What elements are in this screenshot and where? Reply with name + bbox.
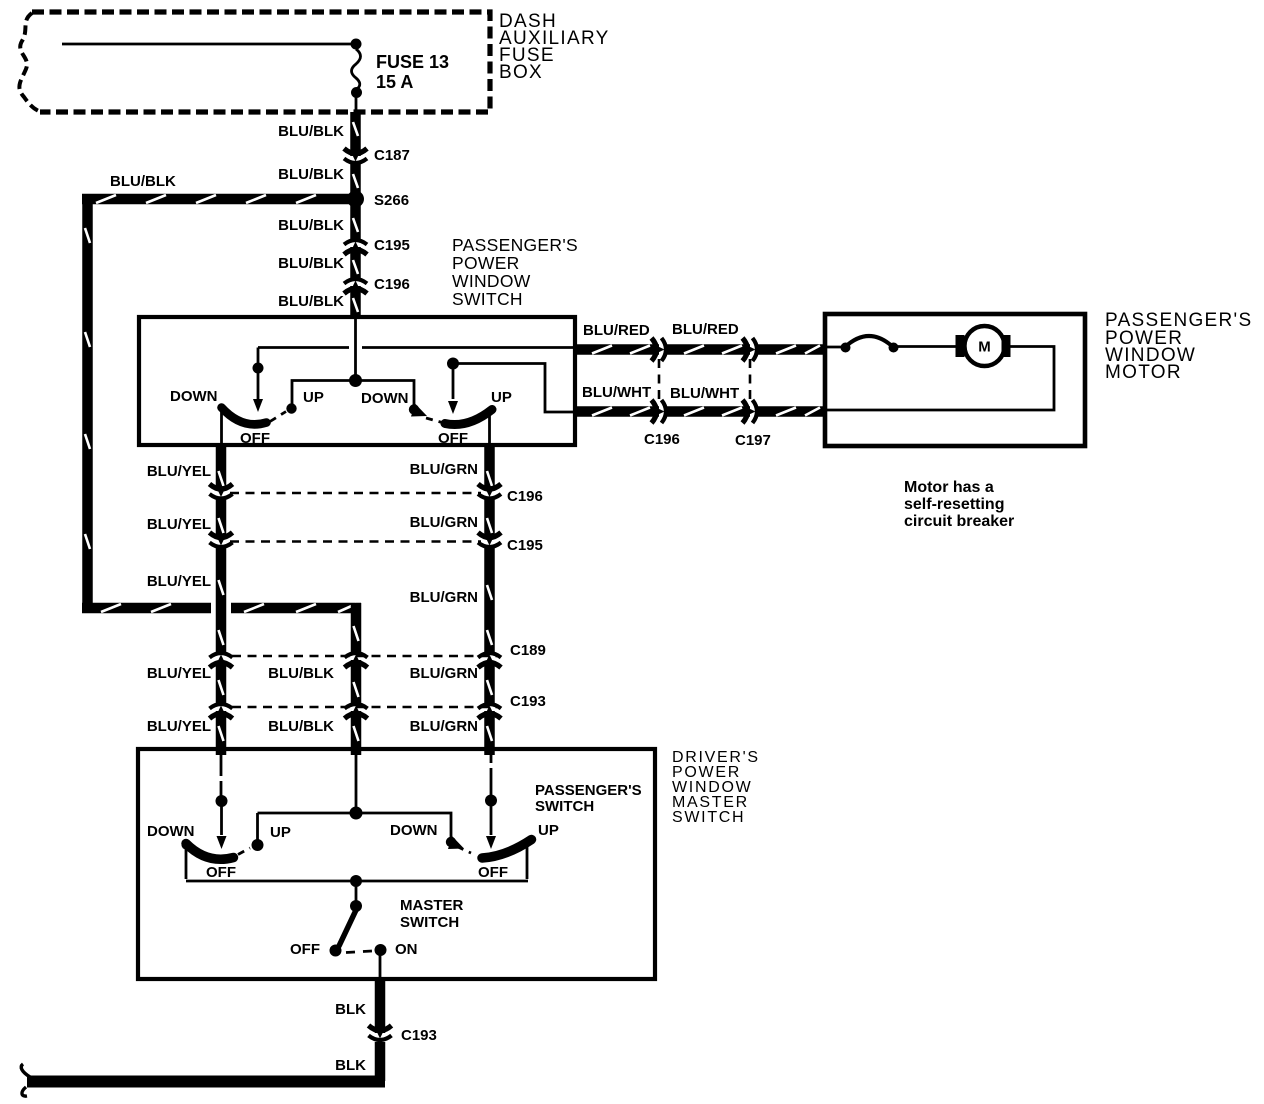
svg-text:BLU/WHT: BLU/WHT <box>670 385 739 402</box>
svg-text:DOWN: DOWN <box>390 822 438 839</box>
svg-text:BLU/BLK: BLU/BLK <box>278 166 344 183</box>
wire right wiper + bus B <box>452 364 455 399</box>
driver's power window master switch box <box>138 749 655 979</box>
connector C196 (BLU/GRN) <box>478 484 501 499</box>
connector C189 (BLU/GRN) <box>478 653 501 668</box>
svg-text:C196: C196 <box>644 431 680 448</box>
rocker right (passenger) <box>445 410 492 425</box>
node DOWN contact (master right) <box>446 837 456 847</box>
svg-text:OFF: OFF <box>206 864 236 881</box>
svg-text:C195: C195 <box>507 537 543 554</box>
wire UP to bus <box>256 813 259 841</box>
svg-text:M: M <box>978 339 991 356</box>
wire BLU/BLK branch (S266 to left run) <box>82 195 349 203</box>
motor M1 <box>956 326 1011 366</box>
svg-text:C196: C196 <box>507 488 543 505</box>
wire feed inside switch <box>354 319 357 378</box>
node fuse top <box>351 39 362 50</box>
wire motor return loop <box>827 347 1054 411</box>
connector C193 (BLU/YEL) <box>210 704 233 719</box>
svg-text:S266: S266 <box>374 192 409 209</box>
wire bus A (to BLU/RED) <box>258 346 575 349</box>
node OFF bus center <box>350 875 362 887</box>
connector C196 (BLU/WHT) <box>652 400 667 423</box>
svg-text:DOWN: DOWN <box>361 390 409 407</box>
svg-text:PASSENGER'S: PASSENGER'S <box>535 782 642 799</box>
dashed link C193 <box>232 706 500 709</box>
svg-text:SWITCH: SWITCH <box>400 914 459 931</box>
svg-text:UP: UP <box>270 824 291 841</box>
svg-text:BLU/BLK: BLU/BLK <box>268 718 334 735</box>
svg-text:BLU/YEL: BLU/YEL <box>147 665 211 682</box>
wire rocker right to OFF bus <box>526 845 529 879</box>
wire motor feed <box>827 346 846 349</box>
svg-text:OFF: OFF <box>438 430 468 447</box>
dashed wiper contact right <box>426 418 444 423</box>
svg-text:BLU/GRN: BLU/GRN <box>410 514 478 531</box>
splice S266 <box>347 191 364 208</box>
wire bus (UP-DOWN link master) <box>258 813 452 837</box>
wire rocker to box bottom (BLU/GRN tap) <box>488 412 491 445</box>
svg-text:DOWN: DOWN <box>147 823 195 840</box>
rocker left (master) <box>186 844 234 860</box>
master switch blade <box>339 909 357 946</box>
svg-text:BLU/BLK: BLU/BLK <box>278 293 344 310</box>
wire left feed inside master <box>220 751 223 796</box>
svg-text:ON: ON <box>395 941 418 958</box>
wire OFF bus (master) <box>186 880 528 883</box>
dashed wiper contact left <box>270 412 286 422</box>
svg-text:C193: C193 <box>510 693 546 710</box>
dashed master contact <box>346 951 372 953</box>
wire breaker to motor <box>893 345 962 348</box>
fuse F13 element <box>352 49 361 89</box>
svg-text:UP: UP <box>303 389 324 406</box>
wire BLU/WHT (switch to motor) <box>575 408 825 416</box>
wire BLK (below master box) <box>375 979 386 1033</box>
wire BLU/BLK feed (fuse box to switch) <box>353 112 358 319</box>
fuse box feed wire <box>62 43 352 46</box>
svg-text:MOTOR: MOTOR <box>1105 362 1182 383</box>
circuit breaker (self-resetting) <box>841 343 851 353</box>
svg-text:C197: C197 <box>735 432 771 449</box>
svg-text:BLK: BLK <box>335 1057 366 1074</box>
node UP contact (master left) <box>252 839 264 851</box>
wire rocker left to OFF bus <box>185 847 188 879</box>
passenger's power window switch box <box>139 317 575 445</box>
node middle junction <box>350 807 363 820</box>
svg-text:self-resetting: self-resetting <box>904 496 1004 513</box>
wire ON to box bottom <box>379 953 382 979</box>
svg-text:UP: UP <box>538 822 559 839</box>
connector C196 (BLU/RED) <box>652 338 667 361</box>
master switch wire down <box>355 881 358 903</box>
svg-text:BLU/RED: BLU/RED <box>583 322 650 339</box>
svg-text:WINDOW: WINDOW <box>452 271 531 291</box>
dashed wiper contact (master left) <box>238 848 250 855</box>
connector C197 (BLU/RED) <box>743 338 758 361</box>
wire BLU/BLK middle vertical (to master switch) <box>354 603 359 755</box>
wire bus C (UP-DOWN link) <box>292 381 414 407</box>
svg-text:BLU/YEL: BLU/YEL <box>147 463 211 480</box>
svg-text:BLU/YEL: BLU/YEL <box>147 573 211 590</box>
connector C187 <box>344 149 367 164</box>
continuation hook (ground run) <box>21 1064 30 1096</box>
svg-text:OFF: OFF <box>478 864 508 881</box>
svg-text:BLU/BLK: BLU/BLK <box>268 665 334 682</box>
dashed link C189 <box>232 655 500 658</box>
connector C195 (top) <box>344 240 367 255</box>
node OFF contact (master switch) <box>330 945 342 957</box>
svg-text:BOX: BOX <box>499 62 543 83</box>
dashed connector links C196/C197 <box>658 359 661 403</box>
connector C193 (BLU/BLK) <box>345 704 368 719</box>
svg-text:BLK: BLK <box>335 1001 366 1018</box>
node DOWN contact right <box>409 404 419 414</box>
svg-text:BLU/BLK: BLU/BLK <box>278 123 344 140</box>
svg-text:BLU/GRN: BLU/GRN <box>410 589 478 606</box>
node ON contact (master switch) <box>375 944 387 956</box>
svg-text:OFF: OFF <box>290 941 320 958</box>
connector C193 (BLU/GRN) <box>478 704 501 719</box>
svg-text:BLU/RED: BLU/RED <box>672 321 739 338</box>
wire fuse to box edge <box>355 96 358 113</box>
svg-text:MASTER: MASTER <box>400 897 464 914</box>
svg-text:BLU/BLK: BLU/BLK <box>278 217 344 234</box>
dashed link C196 <box>230 492 481 495</box>
svg-text:UP: UP <box>491 389 512 406</box>
connector C197 (BLU/WHT) <box>743 400 758 423</box>
svg-text:SWITCH: SWITCH <box>535 798 594 815</box>
passenger's power window motor box <box>825 314 1085 446</box>
connector C189 (BLU/YEL) <box>210 653 233 668</box>
connector C195 (BLU/YEL) <box>210 533 233 548</box>
svg-text:SWITCH: SWITCH <box>672 809 745 826</box>
wire BLK to ground run <box>375 1042 386 1081</box>
node UP contact left <box>286 403 296 413</box>
svg-text:C189: C189 <box>510 642 546 659</box>
svg-text:C195: C195 <box>374 237 410 254</box>
connector C196 (top) <box>344 279 367 294</box>
svg-text:BLU/YEL: BLU/YEL <box>147 516 211 533</box>
svg-text:BLU/WHT: BLU/WHT <box>582 384 651 401</box>
svg-text:BLU/GRN: BLU/GRN <box>410 718 478 735</box>
dashed wiper contact (master right) <box>457 847 471 854</box>
wire BLU/RED (switch to motor) <box>575 346 825 354</box>
connector C195 (BLU/GRN) <box>478 533 501 548</box>
svg-text:POWER: POWER <box>452 253 520 273</box>
wire BLU/YEL vertical <box>219 445 224 755</box>
svg-text:circuit breaker: circuit breaker <box>904 513 1014 530</box>
svg-text:15 A: 15 A <box>376 72 413 92</box>
connector C193 (BLK) <box>369 1026 392 1041</box>
svg-text:BLU/YEL: BLU/YEL <box>147 718 211 735</box>
rocker right (master) <box>482 840 532 859</box>
svg-text:C187: C187 <box>374 147 410 164</box>
connector C189 (BLU/BLK) <box>345 653 368 668</box>
svg-text:PASSENGER'S: PASSENGER'S <box>452 235 578 255</box>
svg-text:C196: C196 <box>374 276 410 293</box>
wire BLU/BLK lower horizontal run <box>82 604 361 612</box>
wire left wiper <box>257 348 260 400</box>
dash auxiliary fuse box outline <box>19 12 490 112</box>
svg-text:BLU/BLK: BLU/BLK <box>110 173 176 190</box>
svg-text:BLU/BLK: BLU/BLK <box>278 255 344 272</box>
connector C196 (BLU/YEL) <box>210 484 233 499</box>
dashed link C195 <box>230 540 481 543</box>
svg-text:BLU/GRN: BLU/GRN <box>410 665 478 682</box>
wire right feed inside master <box>490 751 493 795</box>
svg-text:OFF: OFF <box>240 430 270 447</box>
wire middle feed inside master <box>355 751 358 810</box>
svg-text:C193: C193 <box>401 1027 437 1044</box>
svg-text:DOWN: DOWN <box>170 388 218 405</box>
wire rocker to box bottom (BLU/YEL tap) <box>220 409 223 445</box>
svg-text:BLU/GRN: BLU/GRN <box>410 461 478 478</box>
wire BLU/BLK left vertical run <box>85 194 90 613</box>
svg-text:FUSE 13: FUSE 13 <box>376 52 449 72</box>
svg-text:Motor has a: Motor has a <box>904 479 994 496</box>
svg-text:SWITCH: SWITCH <box>452 289 523 309</box>
rocker left (passenger) <box>222 408 267 425</box>
node fuse bottom <box>351 87 362 98</box>
node feed junction <box>349 374 362 387</box>
wire BLU/GRN vertical <box>487 445 492 755</box>
